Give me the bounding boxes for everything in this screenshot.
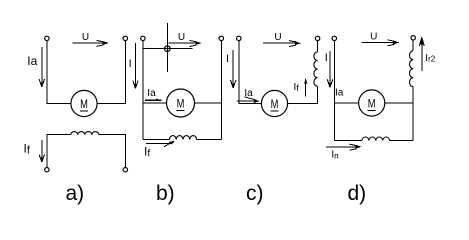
motor M (d) [359,90,385,116]
series field winding (d) bottom [334,137,413,140]
svg-text:I: I [325,52,328,64]
shunt field winding (d) vertical [410,51,414,87]
voltage arrow U (a) [73,40,109,46]
wire b left vertical [142,41,144,140]
terminal a top-right [123,36,127,40]
series field winding (c) vertical [314,52,318,86]
svg-text:c): c) [246,182,264,205]
current arrow I (b-c gap) down [231,50,236,88]
svg-text:a): a) [66,182,85,205]
svg-text:Ia: Ia [147,88,156,99]
current arrow I (a right) down [133,43,138,89]
svg-text:M: M [271,99,279,111]
field winding (b) bottom [143,136,221,140]
wire d armature row left [334,102,358,104]
field winding circuit (a) bottom loop [47,132,125,168]
svg-text:Ia: Ia [27,54,37,68]
svg-text:d): d) [348,182,367,205]
terminal c top-left [237,36,241,40]
svg-text:b): b) [156,182,175,205]
terminal b top-left [141,36,145,40]
wire b top branch [143,48,193,50]
motor M (c) [261,90,287,116]
wire c left [239,41,262,104]
terminal a bottom-left [45,168,49,172]
current arrow Ia (c) [237,97,260,103]
current arrow If (b) [146,141,175,147]
wire b armature row left [143,102,167,104]
wire c right top [317,41,319,52]
current arrow If (c) up [304,79,307,97]
motor M (a) [71,90,97,116]
svg-text:I: I [226,53,229,65]
current arrow I (c-d gap) down [327,51,332,87]
terminal c top-right [315,36,319,40]
current arrow Ia (b) [145,98,162,100]
voltage arrow U (b) [169,41,202,47]
wire a left (armature) [47,41,71,104]
wire a right (armature) [97,41,125,104]
svg-text:U: U [82,32,89,43]
current arrow Ia (a) down [39,47,44,87]
wire b vertical stub [166,23,168,72]
wire d right top stub [412,40,414,51]
terminal a bottom-right [123,168,127,172]
terminal b top-right [219,36,223,40]
wire b right vertical [220,41,222,140]
svg-text:M: M [368,98,376,110]
connector node (b) [165,46,171,52]
voltage arrow U (d) [361,40,399,46]
svg-text:U: U [370,32,377,43]
svg-text:M: M [80,99,88,111]
svg-text:Iп: Iп [331,149,339,160]
motor M (b) [167,89,195,117]
svg-text:Ia: Ia [335,88,344,99]
svg-text:U: U [274,32,281,43]
current arrow Ir2 (d) up [419,37,424,71]
svg-text:If: If [24,142,31,157]
wire d left vertical [333,41,335,141]
svg-text:Ir2: Ir2 [425,53,435,64]
wire d armature row right [385,102,413,104]
wire d right vertical [412,87,414,141]
svg-text:I: I [129,58,132,70]
svg-text:M: M [177,98,185,110]
wire b armature row right [195,102,222,104]
current arrow In (d) [326,144,362,150]
wire c right row [288,86,318,103]
voltage arrow U (c) [263,41,301,47]
svg-text:U: U [178,32,185,43]
terminal d top-left [332,36,336,40]
terminal d top-right [411,36,415,40]
terminal a top-left [45,36,49,40]
svg-text:If: If [294,82,300,93]
current arrow If (a) down [39,140,44,162]
